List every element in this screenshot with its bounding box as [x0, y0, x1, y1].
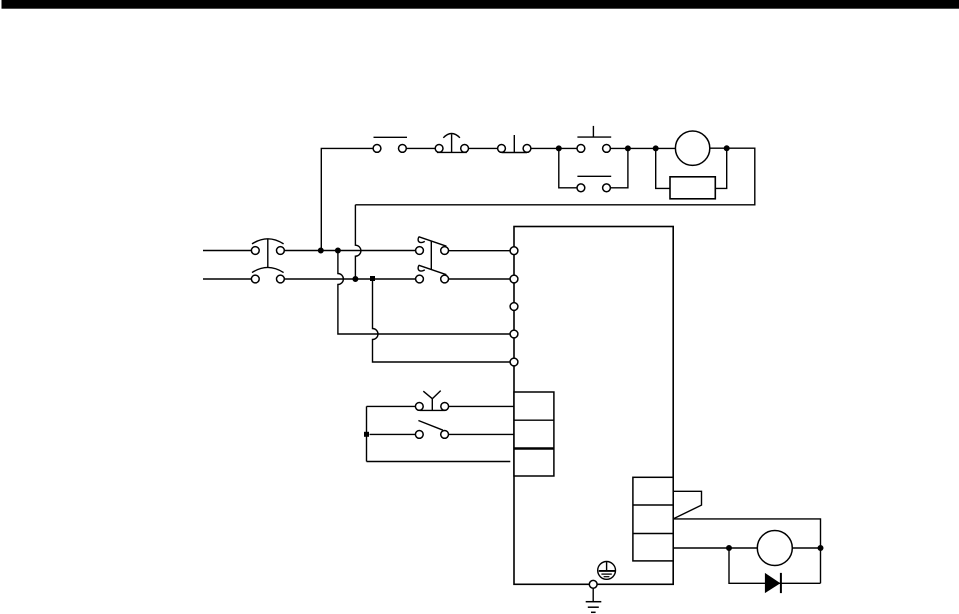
- wire Q1 to terminal 1: [449, 250, 511, 252]
- control box U1: [514, 227, 673, 585]
- push-button S2 (closed contact with mushroom actuator): [435, 134, 468, 153]
- wire E: down to terminal 5, hop over wire B: [373, 281, 511, 362]
- plug P1 pole 2: [251, 267, 284, 282]
- diode D1: [765, 573, 781, 593]
- wire K1 to motor M1: [610, 147, 675, 149]
- selector switch S4 left vertical: [366, 406, 368, 461]
- diode D1 branch across M2: [729, 548, 821, 583]
- plug P1 pole 1: [251, 239, 284, 255]
- motor M1 (circle on top line): [675, 131, 709, 165]
- wire: top-left corner down to power line 1: [321, 148, 373, 250]
- node J2: [626, 146, 631, 151]
- node G: [727, 546, 732, 551]
- wire B: down to terminal 4, hop over line 2: [338, 251, 510, 335]
- resistor R1 branch under motor: [656, 148, 727, 198]
- wire TB2 to motor M2: [673, 547, 757, 549]
- contact K2 (parallel NC contact, bar above): [559, 148, 628, 191]
- node J1: [557, 146, 562, 151]
- wire S1 to S2: [406, 147, 435, 149]
- node F (square): [364, 432, 369, 437]
- wire S4 bottom branch to terminal block: [367, 461, 511, 463]
- relay contact Q1 (top pole): [416, 237, 449, 255]
- node E (square): [370, 276, 375, 281]
- terminal 3: [510, 303, 518, 311]
- wire S3 to contact K1: [531, 147, 577, 149]
- wire D: bus down to line 2, hop over line 1: [355, 205, 361, 279]
- wire motor M1 to right, return bus: [355, 148, 754, 205]
- switch S4a (closed push contact with Y actuator): [367, 391, 515, 411]
- relay contact Q2 (bottom pole): [416, 265, 449, 283]
- wire S2 to S3: [469, 147, 498, 149]
- wire M2 to right: [792, 547, 820, 549]
- wire flag to motor branch right side: [673, 519, 820, 583]
- header bar: [2, 0, 959, 9]
- power line L1 left segment: [203, 250, 251, 252]
- push-button S3 (closed contact with plain stem): [498, 135, 531, 153]
- ground symbol: [586, 588, 602, 612]
- terminal block TB2 (right, 3 cells): [633, 477, 673, 561]
- node J4: [724, 146, 729, 151]
- protective earth symbol (circled ground): [598, 562, 616, 580]
- node on line 2: [353, 277, 358, 282]
- node A: [319, 248, 324, 253]
- terminal 2: [510, 275, 518, 283]
- terminal block TB1 (left, 3 cells): [514, 392, 554, 476]
- terminal on box bottom edge: [589, 580, 597, 588]
- node J3: [653, 146, 658, 151]
- power line L2 left segment: [203, 278, 251, 280]
- terminal 4: [510, 330, 518, 338]
- terminal 1: [510, 247, 518, 255]
- power line L1 to relay contact: [284, 250, 415, 252]
- motor M2: [757, 531, 792, 566]
- node B: [336, 248, 341, 253]
- switch S1 (contact with bar above): [373, 137, 407, 152]
- plug P1 link: [267, 239, 269, 268]
- connector flag on box edge: [673, 491, 701, 519]
- node H: [818, 546, 823, 551]
- mechanical link: [430, 241, 432, 270]
- contact K1 (NO contact, T actuator above): [577, 126, 611, 152]
- terminal 5: [510, 358, 518, 366]
- wire Q2 to terminal 2: [449, 278, 511, 280]
- power line L2 to relay contact: [284, 278, 415, 280]
- switch S4b (open knife contact): [370, 421, 515, 439]
